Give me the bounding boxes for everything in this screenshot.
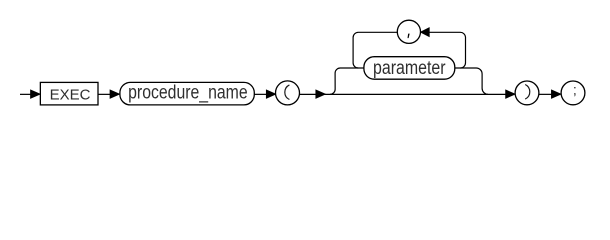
terminal EXEC box xyxy=(40,82,98,105)
wire parameter line exit down to main line xyxy=(455,68,488,94)
wire loop right vertical up xyxy=(429,32,466,68)
nonterminal procedure_name box xyxy=(120,82,254,105)
wire ( to branch / bypass main line xyxy=(300,93,508,95)
svg-text:EXEC: EXEC xyxy=(50,87,91,104)
arrowhead into comma circle (pointing left) xyxy=(421,28,430,37)
nonterminal parameter box xyxy=(364,57,455,79)
arrowhead into EXEC xyxy=(31,90,40,98)
arrowhead into ; xyxy=(552,90,561,98)
arrowhead into procedure_name xyxy=(110,90,119,98)
svg-text:parameter: parameter xyxy=(373,58,446,79)
arrowhead into ( xyxy=(266,90,275,98)
svg-text:;: ; xyxy=(573,81,577,97)
wire procedure_name to ( xyxy=(254,93,267,95)
wire ) to ; xyxy=(539,93,553,95)
svg-text:procedure_name: procedure_name xyxy=(128,83,248,104)
wire loop top left segment and left vertical down xyxy=(353,32,397,68)
terminal comma circle xyxy=(397,20,420,43)
wire start xyxy=(20,93,32,95)
terminal ) circle xyxy=(515,81,539,105)
terminal ( circle xyxy=(276,81,300,105)
arrowhead on main line after ( xyxy=(316,90,325,98)
terminal ; circle xyxy=(561,81,585,105)
arrowhead into ) xyxy=(506,90,515,98)
wire branch up to parameter line xyxy=(330,68,364,94)
wire EXEC to procedure_name xyxy=(98,93,111,95)
